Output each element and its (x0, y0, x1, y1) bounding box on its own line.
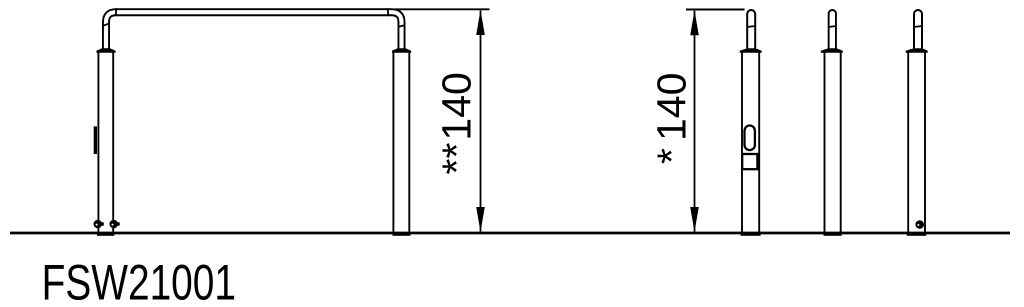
arrowhead bottom left dim (476, 207, 485, 232)
arrowhead top right dim (690, 10, 699, 35)
post2 collar (821, 48, 843, 53)
left post bottom cap (97, 232, 114, 235)
bolt left 2 (109, 220, 118, 229)
top bar tube (inner white) (106, 12, 402, 50)
right post body (392, 52, 394, 234)
svg-text:FSW21001: FSW21001 (42, 254, 236, 307)
dimension extension line right (686, 9, 745, 11)
right post bottom cap (393, 232, 411, 235)
post1 bottom cap (741, 232, 761, 235)
weld seam right corner vertical (398, 25, 405, 27)
bolt left 1 (94, 220, 103, 229)
weld seam right corner horizontal (388, 8, 389, 16)
top bar tube (outer outline) (106, 12, 402, 50)
post3 stub seam tick (914, 26, 922, 27)
dimension extension line left (395, 8, 490, 10)
svg-text:**140: **140 (434, 72, 480, 174)
dimension line left (480, 11, 482, 232)
post1 square plate (742, 154, 757, 169)
post2 stub seam tick (828, 26, 836, 27)
post2 stub (828, 9, 837, 52)
weld seam left corner vertical (102, 23, 109, 26)
post1 stub seam tick (747, 26, 755, 27)
post2 body (824, 52, 826, 234)
left post collar (96, 48, 115, 53)
post2 bottom cap (824, 232, 842, 235)
post1 stub (rounded top tube) (746, 9, 756, 52)
post3 bottom cap (907, 232, 927, 235)
post3 collar (906, 48, 928, 53)
ground line (10, 232, 1010, 235)
post3 body (907, 52, 909, 234)
post3 bolt (915, 220, 924, 229)
left post body (97, 52, 99, 234)
post1 collar (740, 48, 762, 53)
weld seam left corner horizontal (116, 8, 117, 16)
dimension line right (694, 11, 696, 232)
arrowhead top left dim (476, 10, 485, 35)
post1 oval slot (745, 126, 755, 151)
right post collar (392, 48, 411, 53)
arrowhead bottom right dim (690, 207, 699, 232)
weld mark on left post (94, 126, 97, 154)
post1 body (741, 52, 743, 234)
post3 stub (913, 9, 923, 52)
svg-text:*140: *140 (649, 73, 695, 164)
